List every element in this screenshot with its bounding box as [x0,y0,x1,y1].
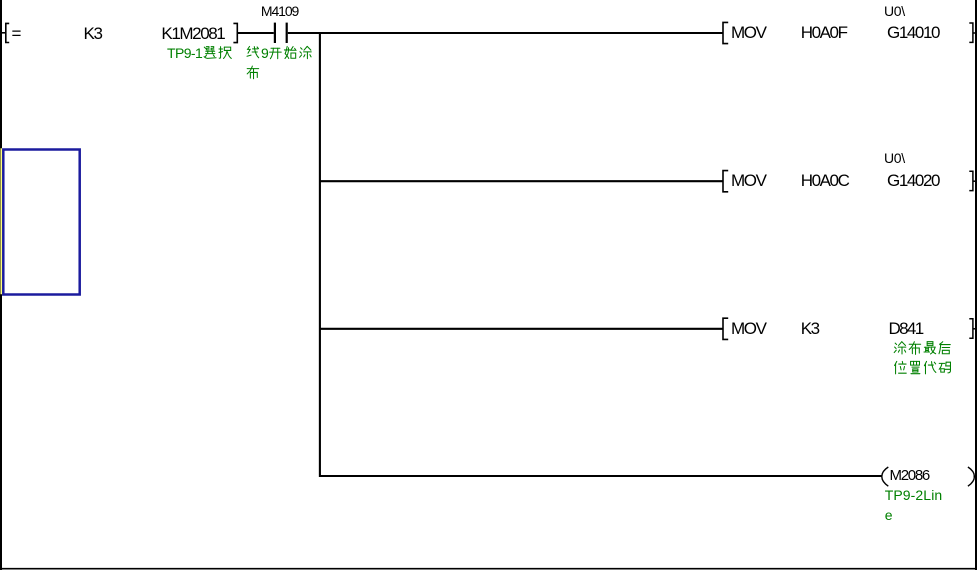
wire: compare to contact [237,32,273,34]
instruction MOV row 3 [731,320,766,337]
operator = [12,25,21,42]
right close bracket row 3 [969,319,973,338]
U0\ label row 1 [884,4,905,18]
svg-text:e: e [885,507,893,523]
comment 位置代码 [895,361,907,373]
operand K3 [84,25,102,42]
MOV open bracket row 2 [723,171,728,192]
comment 线9开始涂布 line2 [247,66,258,79]
svg-text:TP9-1: TP9-1 [167,45,203,61]
blue selection rectangle [3,150,79,295]
MOV open bracket row 3 [723,318,728,339]
comment 涂布最后 [894,342,906,354]
svg-text:TP9-2Lin: TP9-2Lin [885,487,943,503]
left power rail [0,0,2,570]
instruction MOV row 2 [731,172,766,189]
bottom boundary line [0,568,977,570]
comparison instruction close bracket [233,23,237,42]
right power rail [975,0,977,570]
contact label M4109 [261,4,298,18]
branch vertical wire [319,32,321,477]
right close bracket row 1 [969,23,973,42]
MOV open bracket row 1 [723,22,728,43]
contact M4109 [274,23,276,43]
U0\ label row 2 [884,151,905,165]
left rail yellow edit segment [0,148,2,294]
wire: branch row 3 [320,328,723,330]
wire: branch to coil [320,475,882,477]
operand K1M2081 [161,25,224,42]
comment 线9开始涂布 line1 [247,46,259,57]
wire: branch row 2 [320,180,723,182]
svg-text:9: 9 [261,45,269,61]
instruction MOV row 1 [731,24,766,41]
comparison instruction open bracket [6,23,9,42]
coil label M2086 [890,468,929,483]
wire: contact to MOV row1 [288,32,723,34]
coil M2086 right arc [968,467,975,486]
coil M2086 left arc [882,467,889,486]
right close bracket row 2 [969,171,973,190]
